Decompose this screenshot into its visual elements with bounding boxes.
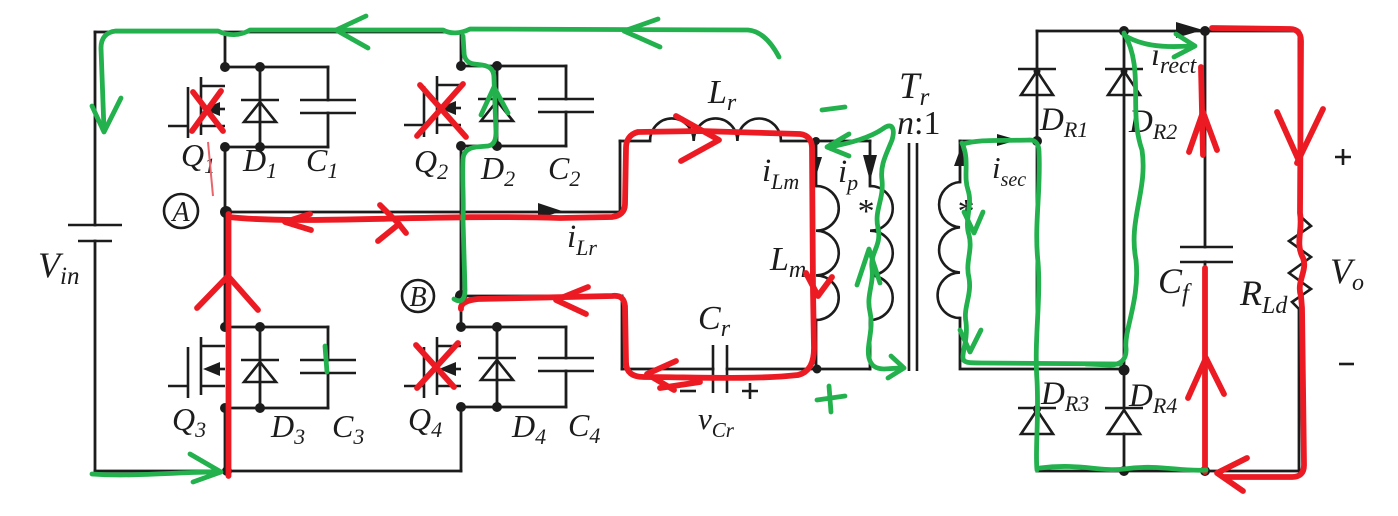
node secondary top junction <box>1032 136 1042 146</box>
svg-text:A: A <box>170 197 190 228</box>
green chevron down on secondary upper <box>964 212 983 233</box>
green tick on C3 <box>325 346 327 372</box>
wire Cr to primary bottom <box>727 368 870 371</box>
wire Lm branch lower <box>815 320 818 369</box>
wire top rail right <box>1037 30 1299 33</box>
green chevron up on primary <box>857 249 880 285</box>
wire Q1 group bottom bar <box>225 146 328 149</box>
resistor RLd <box>1289 215 1311 309</box>
wire Q3 group top bar <box>225 326 328 329</box>
red chevron down on Lm path <box>806 273 832 296</box>
wire leg2 top drop <box>460 32 463 66</box>
wire node A to tank (iLr wire) <box>226 211 620 214</box>
wire to Lr <box>620 140 650 143</box>
red current path leg1 down <box>226 214 232 476</box>
capacitor C4 <box>538 327 594 407</box>
diode DR2 <box>1105 68 1143 370</box>
green path top rail <box>101 29 779 130</box>
rectifier leg DR1/DR3 <box>1036 31 1039 69</box>
inductor Lr <box>650 118 781 141</box>
capacitor Cf <box>1180 247 1233 262</box>
green path bottom rail left <box>92 472 214 475</box>
wire Lr to primary top <box>781 140 870 143</box>
red line Cf lower <box>1202 268 1208 472</box>
red arrow left on Cr wire <box>647 361 700 390</box>
diode D3 <box>241 327 279 408</box>
wire Lm branch upper with iLm arrow <box>815 141 818 186</box>
green path bottom rail right <box>1040 466 1206 470</box>
inductor Lm <box>816 186 839 320</box>
wire Cf branch upper <box>1200 26 1210 36</box>
wire left rail upper <box>94 32 97 225</box>
label vCr polarity minus <box>680 390 696 393</box>
red chevron up Cf upper <box>1189 112 1217 152</box>
green path through D2 <box>454 36 496 301</box>
red arrow up on leg1 <box>197 276 258 310</box>
wire tank step down <box>621 296 624 369</box>
wire node B to step <box>461 295 622 298</box>
arrow irect current <box>1176 22 1203 38</box>
wire secondary top with isec arrow <box>959 141 962 182</box>
transistor Q2 <box>404 76 461 137</box>
label Vo plus <box>1335 149 1351 165</box>
wire Cf branch lower <box>1204 262 1207 471</box>
wire leg down to DR4 <box>1123 369 1126 408</box>
transformer primary winding <box>870 186 893 320</box>
wire Q1 group top bar <box>225 66 328 69</box>
wire bottom rail right <box>1037 470 1299 473</box>
arrow isec current <box>997 134 1018 146</box>
node dots Q2 group <box>456 61 466 71</box>
wire Q2 group top bar <box>461 65 566 68</box>
green chevron down on secondary lower <box>960 330 981 352</box>
wire leg1 top drop <box>224 32 227 67</box>
wire right rail upper <box>1298 31 1301 215</box>
green plus below tank bottom <box>817 386 845 412</box>
diode D4 <box>478 327 516 407</box>
diode D2 <box>478 66 516 146</box>
battery Vin <box>68 225 122 241</box>
red output loop top <box>1212 28 1304 477</box>
wire leg down to DR3 <box>1036 141 1039 408</box>
transistor Q4 <box>404 337 461 398</box>
node secondary bottom junction <box>1119 365 1130 376</box>
green path secondary winding <box>962 143 1120 364</box>
svg-text:B: B <box>409 282 426 313</box>
transformer Tr core <box>909 143 917 371</box>
red X on Q4 <box>416 343 458 388</box>
wire leg1 A to Q3 <box>224 212 227 327</box>
wire tank step up <box>619 141 622 212</box>
diode DR1 <box>1018 68 1056 142</box>
wire secondary top to rectifier <box>960 140 1037 143</box>
wire Q4 group top bar <box>461 326 566 329</box>
wire Q4 group bottom bar <box>461 406 566 409</box>
wire primary top with ip arrow <box>869 141 872 186</box>
node Lm top <box>812 137 820 145</box>
transistor Q1 <box>168 77 225 138</box>
node B <box>455 290 467 302</box>
green minus near primary top <box>822 107 845 110</box>
wire step to Cr <box>622 368 713 371</box>
arrow ip current <box>863 155 877 181</box>
capacitor C2 <box>538 66 594 146</box>
green path primary winding <box>830 126 900 369</box>
wire primary bottom <box>869 320 872 369</box>
wire leg1 Q3 to bottom rail <box>224 408 227 471</box>
node dots Q1 group <box>220 62 230 72</box>
wire leg2 down through crossing to node B <box>460 146 463 296</box>
red X on Q2 <box>417 84 466 137</box>
wire leg2 B to Q4 <box>460 296 463 327</box>
red zigzag arrow on iLr wire <box>378 205 406 241</box>
wire left rail lower <box>94 241 97 471</box>
red zigzag arrow on Lr <box>676 116 719 161</box>
diode D1 <box>241 67 279 147</box>
red chevron down on right rail <box>1277 109 1323 163</box>
transistor Q3 <box>168 337 225 398</box>
wire top rail <box>95 31 461 34</box>
green arrow left on tank top wire <box>827 134 849 156</box>
arrow iLm current <box>810 157 822 176</box>
node dots Q3 group <box>220 322 230 332</box>
red stray stroke below Q1 <box>208 142 213 196</box>
node Lm bottom <box>813 365 822 374</box>
node A <box>220 206 232 218</box>
arrow iLr current <box>538 203 562 219</box>
red line Cf upper <box>1201 67 1203 155</box>
green arrow right near irect <box>1124 34 1195 57</box>
wire right rail lower <box>1298 309 1301 471</box>
svg-text:*: * <box>856 193 873 230</box>
green arrow right on bottom rail left <box>190 454 221 482</box>
capacitor Cr <box>713 345 727 393</box>
label vCr polarity plus <box>742 383 758 399</box>
red arrow left on bottom rail <box>1217 458 1247 491</box>
green path DR2 leg <box>1086 33 1143 365</box>
transformer secondary winding <box>938 182 960 318</box>
green path DR1 DR3 leg <box>963 140 1039 470</box>
green arrow left on top rail second <box>336 16 368 48</box>
green arrow left on top rail <box>624 19 660 47</box>
wire leg2 Q4 to bottom rail <box>460 407 463 471</box>
red arrow left on B wire <box>556 287 588 314</box>
diode DR3 <box>1018 405 1056 471</box>
node dots Q4 group <box>456 322 466 332</box>
wire Q2 group bottom bar <box>461 145 566 148</box>
green arrow up on D2 <box>481 87 508 115</box>
red chevron up Cf lower <box>1188 358 1224 398</box>
wire bottom rail left <box>95 470 461 473</box>
red current loop main path <box>229 131 814 378</box>
wire leg1 to node A <box>224 147 227 212</box>
label Vo minus <box>1339 363 1354 366</box>
green arrow down on left rail <box>92 98 121 132</box>
red X on Q1 <box>192 91 223 131</box>
green arrow right on tank bottom wire <box>888 356 904 378</box>
rectifier leg DR2/DR4 <box>1119 26 1129 36</box>
red arrow left near A <box>285 214 311 230</box>
svg-text:n:1: n:1 <box>897 105 940 142</box>
capacitor C1 <box>300 67 356 147</box>
capacitor C3 <box>300 327 356 408</box>
wire secondary bottom <box>960 318 1124 369</box>
diode DR4 <box>1105 408 1143 471</box>
wire Q3 group bottom bar <box>225 407 328 410</box>
